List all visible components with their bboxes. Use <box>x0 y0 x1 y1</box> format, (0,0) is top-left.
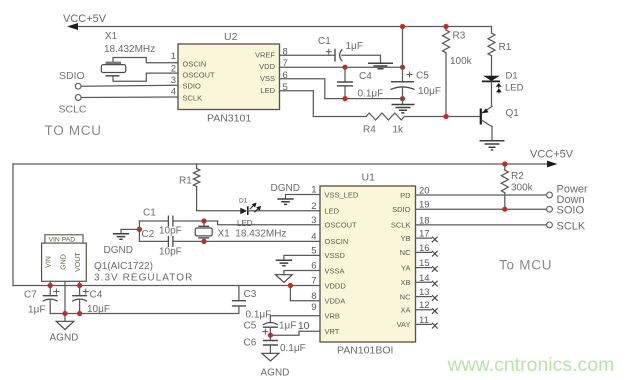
wire U1 pin5 VSSD to ground <box>284 255 320 260</box>
svg-text:9: 9 <box>311 302 316 313</box>
junction dot VCC vertical top rail <box>400 24 405 29</box>
junction dot C5 bottom <box>400 96 405 101</box>
wire U2 pin5 LED down to R4 line <box>280 91 314 117</box>
wire R4 to Q1 base <box>404 116 479 118</box>
svg-text:3.3V REGULATOR: 3.3V REGULATOR <box>94 273 193 284</box>
junction dot R2 bottom on SDIO line <box>502 207 507 212</box>
wire X1 top to U1 pin3 OSCOUT <box>218 221 320 225</box>
svg-text:PD: PD <box>400 191 411 200</box>
Q1 collector line <box>482 120 492 126</box>
svg-text:AGND: AGND <box>261 368 290 379</box>
svg-text:1μF: 1μF <box>346 41 363 52</box>
wire U1 pin6 VSSA to ground <box>284 271 320 275</box>
svg-text:R4: R4 <box>363 125 376 136</box>
wire caps common vertical <box>138 221 140 241</box>
svg-text:U1: U1 <box>362 172 376 184</box>
svg-text:D1: D1 <box>239 198 248 205</box>
svg-text:OSCIN: OSCIN <box>183 60 207 69</box>
C5 (lower) plus sign <box>262 329 268 335</box>
svg-text:C6: C6 <box>244 338 257 349</box>
svg-text:Q1(AIC1722): Q1(AIC1722) <box>94 261 153 272</box>
junction dot X1 top <box>201 218 206 223</box>
crystal X1 (lower) top lead <box>203 221 205 226</box>
svg-text:2: 2 <box>171 64 176 75</box>
wire U2 pin8 VREF to C1 <box>280 54 335 56</box>
capacitor C4 top lead <box>344 67 346 81</box>
svg-text:5: 5 <box>283 82 288 93</box>
diode D1 triangle <box>483 76 499 81</box>
svg-text:LED: LED <box>237 219 253 228</box>
diode D1 (lower) cathode bar <box>247 206 249 215</box>
capacitor C1 straight plate <box>334 49 336 62</box>
wire 3.3V rail to U1 VDDD <box>13 285 320 287</box>
wire X1 bottom to U2 pin2 <box>113 73 178 81</box>
resistor R1 (lower) top lead <box>196 164 198 169</box>
NC stub pin13 <box>416 296 432 298</box>
NC stub pin12 <box>416 309 432 311</box>
svg-text:C5: C5 <box>244 321 257 332</box>
resistor R2 zigzag <box>501 170 508 193</box>
svg-text:300k: 300k <box>511 183 534 194</box>
svg-text:C7: C7 <box>24 290 37 301</box>
crystal X1 (lower) bottom lead <box>203 238 205 241</box>
svg-text:0.1μF: 0.1μF <box>246 310 272 321</box>
crystal X1 body <box>101 65 126 73</box>
wire cap bottom rail to C5 <box>325 98 403 100</box>
svg-text:DGND: DGND <box>271 183 300 194</box>
svg-text:VRB: VRB <box>325 312 340 321</box>
arrowhead VCC+5V lower rail pointing right <box>547 161 558 168</box>
Q1 emitter arrowhead <box>482 108 489 113</box>
wire C1 to X1 top <box>173 220 217 222</box>
LED arrow 2 (lower) <box>254 208 258 212</box>
wire U1 pin10 VRT jog <box>270 331 320 335</box>
ground at U1 pin5 <box>276 260 292 265</box>
svg-text:8: 8 <box>311 291 316 302</box>
svg-text:Q1: Q1 <box>506 108 520 119</box>
svg-text:VRT: VRT <box>325 327 340 336</box>
capacitor C4 plates <box>337 82 353 86</box>
svg-text:SDIO: SDIO <box>183 82 202 91</box>
svg-text:C5: C5 <box>416 71 429 82</box>
svg-text:18.432MHz: 18.432MHz <box>104 44 155 55</box>
wire oscillator bottom net to U1 pin4 OSCIN <box>139 240 168 242</box>
wire U1 pin8 VDDA jog to rail <box>290 286 320 301</box>
wire D1 to U1 pin2 LED <box>248 210 320 212</box>
svg-text:3: 3 <box>171 75 176 86</box>
svg-text:DGND: DGND <box>104 245 133 256</box>
terminal SCLC <box>75 95 81 101</box>
regulator VIN PAD box <box>45 235 83 243</box>
svg-text:OSCIN: OSCIN <box>325 237 349 246</box>
svg-text:10: 10 <box>298 320 310 332</box>
wire VOUT pin <box>79 281 81 285</box>
capacitor C5 curved bottom plate <box>391 87 415 90</box>
svg-text:XA: XA <box>400 306 410 315</box>
svg-text:VIN: VIN <box>46 256 53 268</box>
svg-text:2: 2 <box>311 201 316 212</box>
terminal SDIO <box>75 83 81 89</box>
svg-text:R1: R1 <box>499 42 512 53</box>
terminal SOIO <box>547 206 553 212</box>
capacitor C3 plates <box>232 301 246 306</box>
capacitor C5 (lower) plates <box>263 323 278 325</box>
wire stub to DGND (osc) <box>121 229 139 233</box>
capacitor C1 plus sign <box>326 49 332 55</box>
sensor U1 body PAN101BOI <box>320 186 416 342</box>
svg-text:VSSA: VSSA <box>325 266 345 275</box>
crystal X1 (lower) body <box>195 228 212 236</box>
capacitor C7 plates <box>43 295 58 297</box>
svg-text:VSS: VSS <box>260 74 275 83</box>
capacitor C6 top lead <box>269 335 271 340</box>
svg-text:LED: LED <box>325 207 340 216</box>
junction dot C4 bottom <box>342 96 347 101</box>
capacitor C1 curved plate <box>340 49 343 61</box>
svg-text:X1 18.432MHz: X1 18.432MHz <box>218 229 287 240</box>
resistor R1 bottom lead <box>491 56 493 76</box>
svg-text:X1: X1 <box>105 31 118 42</box>
ground DGND at U1 pin1 <box>277 199 293 204</box>
NC stub pin14 <box>416 281 432 283</box>
svg-text:VREF: VREF <box>255 50 275 59</box>
svg-text:NC: NC <box>400 248 411 257</box>
junction dot VDD/VCC vertical <box>400 65 405 70</box>
junction dot R3 top rail <box>443 24 448 29</box>
capacitor C2 plates <box>168 236 173 247</box>
svg-text:0.1μF: 0.1μF <box>358 89 384 100</box>
svg-text:PAN3101: PAN3101 <box>207 113 251 125</box>
svg-text:To MCU: To MCU <box>499 258 552 273</box>
svg-text:VCC+5V: VCC+5V <box>530 149 574 161</box>
junction dot VIN on rail <box>48 283 53 288</box>
capacitor C5 (lower) top lead <box>269 316 271 322</box>
capacitor C6 bottom lead <box>269 345 271 353</box>
wire D1 cathode to Q1 emitter <box>491 81 493 106</box>
ground AGND triangle (C6) <box>262 353 279 361</box>
svg-text:U2: U2 <box>224 31 238 43</box>
svg-text:VOUT: VOUT <box>75 252 82 272</box>
svg-text:1μF: 1μF <box>28 305 45 316</box>
svg-text:SCLK: SCLK <box>557 221 586 233</box>
wire SCLC to U2 pin4 <box>81 96 178 99</box>
resistor R2 bottom lead <box>504 193 506 209</box>
op-amp U2 body PAN3101 <box>178 44 280 110</box>
wire X1 top to U2 pin1 <box>113 58 178 63</box>
wire SDIO to U2 pin3 <box>81 84 178 87</box>
junction dot R3 bottom on base line <box>443 114 448 119</box>
wire VIN pin <box>49 281 51 285</box>
svg-text:SCLK: SCLK <box>391 221 411 230</box>
wire left vertical feed <box>12 164 14 286</box>
wire VCC+5V lower rail <box>13 163 548 165</box>
svg-text:R1: R1 <box>179 176 192 187</box>
svg-text:PAN101BOI: PAN101BOI <box>337 345 393 357</box>
diode D1 cathode bar <box>482 80 500 82</box>
wire R4 line left segment <box>313 116 366 118</box>
wire stub to AGND <box>64 314 66 322</box>
svg-text:7: 7 <box>311 276 316 287</box>
wire C2 to U1 pin4 <box>173 240 320 242</box>
svg-text:R2: R2 <box>511 171 524 182</box>
ground below Q1 <box>480 141 505 150</box>
svg-text:SCLK: SCLK <box>183 94 203 103</box>
svg-text:4: 4 <box>171 87 176 98</box>
resistor R3 bottom lead <box>445 53 447 117</box>
svg-text:VAY: VAY <box>397 320 411 329</box>
svg-text:OSCOUT: OSCOUT <box>325 221 358 230</box>
terminal SCLK <box>547 222 553 228</box>
crystal X1 top electrode <box>106 62 122 65</box>
svg-text:VDDA: VDDA <box>325 297 346 306</box>
arrowhead VCC+5V rail pointing left <box>67 23 78 30</box>
capacitor C5 top plate <box>391 81 414 83</box>
junction dot caps common <box>137 227 142 232</box>
capacitor C4 (lower) bottom lead <box>79 300 81 314</box>
NC stub pin16 <box>416 251 432 253</box>
svg-text:0.1μF: 0.1μF <box>280 343 306 354</box>
svg-text:SDIO: SDIO <box>59 70 85 82</box>
svg-text:NC: NC <box>400 292 411 301</box>
LED arrow 2 <box>496 88 502 92</box>
resistor R2 top lead <box>504 164 506 170</box>
capacitor C4 bottom lead <box>344 86 346 98</box>
junction dot C4 bottom <box>77 311 82 316</box>
svg-text:SOIO: SOIO <box>557 205 585 217</box>
wire U2 pin6 VSS down to cap bottom rail <box>280 79 325 99</box>
wire VCC vertical from top rail <box>402 27 404 82</box>
Q1 emitter line <box>482 107 492 114</box>
svg-text:OSCOUT: OSCOUT <box>183 71 216 80</box>
svg-text:10pF: 10pF <box>159 226 182 237</box>
svg-text:D1: D1 <box>506 71 518 82</box>
capacitor C4 (lower) top lead <box>79 286 81 296</box>
svg-text:5: 5 <box>311 246 316 257</box>
wire oscillator top net <box>139 220 168 222</box>
svg-text:3: 3 <box>311 215 316 226</box>
svg-text:1μF: 1μF <box>279 321 296 332</box>
svg-text:1: 1 <box>311 185 316 196</box>
svg-text:www.cntronics.com: www.cntronics.com <box>447 354 615 376</box>
svg-text:VDD: VDD <box>259 62 275 71</box>
svg-text:LED: LED <box>260 86 275 95</box>
ground triangle at U1 pin6 <box>276 275 293 283</box>
capacitor C6 plates <box>263 341 278 346</box>
capacitor C3 bottom lead <box>238 306 240 313</box>
crystal X1 (lower) top plate <box>198 225 209 227</box>
svg-text:GND: GND <box>60 254 67 270</box>
wire U2 pin7 VDD to VCC vertical <box>280 66 403 68</box>
wire Q1 collector to ground <box>491 126 493 140</box>
svg-text:TO MCU: TO MCU <box>45 123 102 138</box>
svg-text:1: 1 <box>171 51 176 62</box>
diode D1 (lower) triangle <box>240 208 247 215</box>
svg-text:C1: C1 <box>143 208 156 219</box>
svg-text:LED: LED <box>505 83 524 94</box>
capacitor C7 bottom lead <box>49 300 51 314</box>
terminal Power Down <box>547 192 553 198</box>
svg-text:XB: XB <box>400 278 410 287</box>
svg-text:10μF: 10μF <box>418 86 441 97</box>
capacitor C5 (lower) bottom lead <box>269 327 271 335</box>
resistor R3 top lead <box>445 27 447 31</box>
ground AGND triangle (left) <box>56 321 74 329</box>
capacitor C1 (lower) plates <box>168 216 173 227</box>
ground DGND (osc) <box>113 234 129 239</box>
resistor R1 (lower) zigzag <box>193 169 199 187</box>
resistor R1 zigzag <box>488 33 495 56</box>
svg-text:VSS_LED: VSS_LED <box>325 190 359 199</box>
svg-text:AGND: AGND <box>50 333 79 344</box>
wire U1 pin1 VSS_LED to DGND <box>286 195 321 199</box>
NC stub pin11 <box>416 323 432 325</box>
junction dot VOUT on rail <box>77 283 82 288</box>
resistor R1 top lead <box>491 27 493 34</box>
wire C1 to ground <box>342 55 381 62</box>
capacitor C5 bottom lead <box>402 88 404 104</box>
svg-text:R3: R3 <box>453 31 466 42</box>
svg-text:10pF: 10pF <box>159 247 182 258</box>
svg-text:1k: 1k <box>393 125 405 136</box>
svg-text:VSSD: VSSD <box>325 251 346 260</box>
NC stub pin15 <box>416 267 432 269</box>
junction dot X1 bottom <box>201 239 206 244</box>
resistor R1 (lower) bottom lead <box>197 187 241 211</box>
wire U1 pin9 VRB to C5 <box>270 315 320 317</box>
svg-text:C4: C4 <box>359 71 372 82</box>
LED arrow 1 (lower) <box>250 205 254 209</box>
junction dot C4 top <box>342 65 347 70</box>
svg-text:C4: C4 <box>90 290 103 301</box>
svg-text:VIN PAD: VIN PAD <box>49 237 76 244</box>
junction dot R2 top on rail <box>502 161 507 166</box>
svg-text:YA: YA <box>401 263 410 272</box>
resistor R4 zigzag <box>366 113 404 120</box>
svg-text:SDIO: SDIO <box>392 205 411 214</box>
C4 (lower) plus sign <box>83 289 89 295</box>
svg-text:VDDD: VDDD <box>325 281 347 290</box>
svg-text:YB: YB <box>400 234 410 243</box>
crystal X1 (lower) bottom plate <box>198 237 209 239</box>
svg-text:VCC+5V: VCC+5V <box>63 13 107 25</box>
regulator Q1(AIC1722) body <box>42 243 87 281</box>
junction dot VDDA on rail <box>288 283 293 288</box>
LED arrow 1 <box>496 83 502 87</box>
C7 plus sign <box>53 289 59 295</box>
svg-text:4: 4 <box>311 232 316 243</box>
wire U1 pin18 SCLK to terminal <box>416 224 547 226</box>
wire analog ground line <box>50 313 239 315</box>
wire VCC+5V top rail <box>76 26 492 28</box>
C5 plus sign <box>407 72 413 78</box>
svg-text:100k: 100k <box>450 56 473 67</box>
svg-text:6: 6 <box>311 261 316 272</box>
svg-text:C1: C1 <box>318 36 331 47</box>
capacitor C4 (lower) plates <box>72 295 87 297</box>
NC stub pin17 <box>416 237 432 239</box>
crystal X1 bottom electrode <box>106 75 120 77</box>
svg-text:C3: C3 <box>244 289 257 300</box>
junction dot C5/C6/VRT <box>268 333 273 338</box>
wire U1 pin19 SDIO to terminal <box>416 208 547 210</box>
resistor R3 zigzag <box>443 30 450 53</box>
capacitor C3 top lead <box>238 286 240 301</box>
junction dot GND pin bottom <box>62 311 67 316</box>
svg-text:SCLC: SCLC <box>59 104 87 116</box>
wire GND pin <box>64 281 66 313</box>
transistor Q1 bar <box>480 109 482 125</box>
wire U1 pin20 PD to terminal <box>416 194 547 196</box>
ground after C1 <box>368 63 393 68</box>
ground below C5 <box>392 105 415 113</box>
svg-text:C2: C2 <box>142 229 155 240</box>
capacitor C7 top lead <box>49 286 51 296</box>
